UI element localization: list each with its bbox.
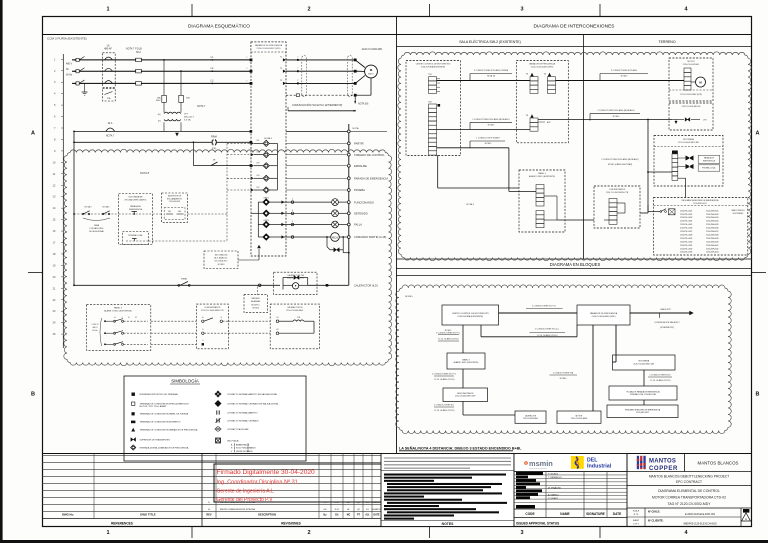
svg-text:60 Hz: 60 Hz <box>66 74 73 77</box>
VFD control terminals <box>250 130 253 133</box>
svg-text:DETENIDO: DETENIDO <box>354 212 368 216</box>
contacts BB BA <box>164 208 185 220</box>
svg-text:2120-PSL-0031: 2120-PSL-0031 <box>680 245 692 247</box>
svg-text:(X): (X) <box>158 121 161 123</box>
legend box SIMBOLOGIA <box>124 376 306 461</box>
svg-text:NOTA 3: NOTA 3 <box>218 263 225 266</box>
svg-text:2120-PSL-0032: 2120-PSL-0032 <box>680 248 692 250</box>
svg-text:NOTA 4: NOTA 4 <box>264 137 272 140</box>
wire vfd-motor <box>592 325 594 411</box>
box calefactor JYA <box>274 272 317 294</box>
svg-text:2120-PSL-0024: 2120-PSL-0024 <box>680 221 692 223</box>
aux contact box JYA <box>103 88 116 101</box>
svg-text:JYA: JYA <box>107 97 111 100</box>
wire no usados to VFD <box>238 259 259 261</box>
svg-text:RESUMEN SENSORES DE EMERGENCIA: RESUMEN SENSORES DE EMERGENCIA <box>682 199 720 202</box>
PT transformer JPT <box>163 102 165 112</box>
panel3 wires <box>509 190 536 192</box>
bloques inner line <box>397 275 752 277</box>
svg-text:NOTA 5: NOTA 5 <box>621 75 628 78</box>
approvals redactions <box>516 472 543 475</box>
svg-text:TAG N° 2120-CV-0002-MDY: TAG N° 2120-CV-0002-MDY <box>668 502 712 506</box>
shield wire dashed <box>286 94 355 96</box>
divider motor box <box>669 89 713 91</box>
block BOTONERA CAMPO <box>609 386 677 400</box>
box VFD interconexion <box>516 61 568 143</box>
svg-text:DESCONECTADOR: DESCONECTADOR <box>457 392 474 395</box>
junction dots on phases <box>163 59 165 61</box>
svg-text:42 A: 42 A <box>108 122 113 125</box>
VFD output wires to motor <box>286 59 355 61</box>
svg-text:3: 3 <box>520 530 523 536</box>
box asistente enclavamiento <box>162 193 188 222</box>
svg-text:3: 3 <box>292 221 293 223</box>
svg-text:2120-TLL-2002-MDN-CTB: 2120-TLL-2002-MDN-CTB <box>606 192 629 194</box>
svg-text:MANTOS BLANCOS: MANTOS BLANCOS <box>698 461 739 466</box>
sensor terminal <box>669 209 676 215</box>
svg-text:600V: 600V <box>156 100 161 102</box>
logos box <box>514 454 627 472</box>
svg-text:480 V: 480 V <box>66 63 73 66</box>
svg-text:2120-ESP-0021: 2120-ESP-0021 <box>636 412 649 414</box>
svg-text:2120-CV-0002-MDY-VDP: 2120-CV-0002-MDY-VDP <box>455 396 476 398</box>
svg-text:Gerente de Ingeniería A.L: Gerente de Ingeniería A.L <box>217 489 274 495</box>
svg-text:RIMA: RIMA <box>211 136 217 139</box>
svg-text:ID5: ID5 <box>257 187 260 189</box>
svg-text:FALLA: FALLA <box>354 223 362 227</box>
scan edge bottom <box>0 540 768 543</box>
svg-text:PULSADORES: PULSADORES <box>90 227 104 230</box>
svg-text:DIAGRAMA ESQUEMÁTICO: DIAGRAMA ESQUEMÁTICO <box>188 23 250 30</box>
svg-text:ALARM Y ENCL (EXISTENTE): ALARM Y ENCL (EXISTENTE) <box>454 361 479 364</box>
svg-text:P1: P1 <box>135 317 137 319</box>
motor M 460V <box>365 65 378 78</box>
svg-text:PANEL 3: PANEL 3 <box>114 307 123 310</box>
svg-text:TABLERO DE CONTROL: TABLERO DE CONTROL <box>354 153 385 157</box>
svg-text:MOTOR: MOTOR <box>576 415 583 417</box>
svg-text:Industrial: Industrial <box>587 464 612 470</box>
svg-text:PULSADOR PARADA DE EMERGENCIA: PULSADOR PARADA DE EMERGENCIA <box>626 390 660 393</box>
svg-text:ENTRADA DIGITAL A VARIADOR DE: ENTRADA DIGITAL A VARIADOR DE FRECUENCIA <box>140 446 189 449</box>
wire ccm to vfd power <box>437 80 531 82</box>
DO left bus <box>257 202 259 237</box>
svg-text:(H): (H) <box>158 114 161 116</box>
svg-text:2120-ZSH-0039: 2120-ZSH-0039 <box>706 238 718 240</box>
svg-text:2120-ZSH-0043: 2120-ZSH-0043 <box>706 252 718 254</box>
svg-text:2 CONDUCTORES NºL (2+): 2 CONDUCTORES NºL (2+) <box>535 328 559 331</box>
svg-text:CONCENTRADOR: CONCENTRADOR <box>609 188 626 191</box>
box PANEL 3 alarm <box>87 305 151 351</box>
comando partir row <box>284 236 331 238</box>
svg-text:MCA PLC: MCA PLC <box>252 303 261 306</box>
margin row tick left <box>28 272 42 274</box>
svg-text:PARTIR: PARTIR <box>354 142 364 146</box>
svg-text:ASISTENTE DE: ASISTENTE DE <box>168 195 182 198</box>
svg-text:CONTACTO NORMAL ABIERTO: CONTACTO NORMAL ABIERTO <box>227 411 258 414</box>
svg-text:NOTA 5/6: NOTA 5/6 <box>358 103 369 106</box>
svg-text:ISSUED APPROVAL STATUS: ISSUED APPROVAL STATUS <box>516 521 559 525</box>
svg-text:2 CONDUCTORES NºL P#L: 2 CONDUCTORES NºL P#L <box>432 373 456 376</box>
svg-text:2120-ZSH-0040: 2120-ZSH-0040 <box>706 241 718 243</box>
box junction JB <box>270 304 319 349</box>
wire to pulsador <box>648 171 672 173</box>
wire vfd to motor power <box>556 80 685 82</box>
concentrador row2 <box>151 332 197 334</box>
svg-text:2120-CV-0002-MDV (VFD): 2120-CV-0002-MDV (VFD) <box>592 316 616 318</box>
VFD strip s1 <box>530 73 533 76</box>
svg-text:REFERENCES: REFERENCES <box>111 522 133 526</box>
header band line <box>43 34 752 36</box>
svg-text:CALEFACTOR: CALEFACTOR <box>525 414 537 417</box>
svg-text:BORNERA DISPOSITIVO DE TERMINA: BORNERA DISPOSITIVO DE TERMINAL <box>140 393 179 396</box>
left reference table <box>42 454 202 456</box>
wire vfd-botonera <box>615 325 617 362</box>
pulsador strip <box>672 151 678 154</box>
svg-text:msmin: msmin <box>529 459 553 468</box>
svg-text:NOTA 5 (CABLE MULTIPAR): NOTA 5 (CABLE MULTIPAR) <box>608 163 633 166</box>
margin ticks top <box>191 4 193 17</box>
box concentrador interconexion <box>594 186 640 228</box>
svg-text:CCM-3 FURIA (EXISTENTE): CCM-3 FURIA (EXISTENTE) <box>457 315 483 318</box>
svg-text:2 CONDUCTORES Nº16 AWG (BLINDA: 2 CONDUCTORES Nº16 AWG (BLINDADO) <box>601 158 639 161</box>
svg-text:H1: H1 <box>276 317 278 319</box>
svg-text:2120-CV-0002-M01: 2120-CV-0002-M01 <box>362 48 384 51</box>
dashed wires to DI <box>188 213 227 215</box>
svg-text:RIMA: RIMA <box>94 224 100 227</box>
svg-text:2120-ZSH-0033: 2120-ZSH-0033 <box>706 217 718 219</box>
revision table <box>202 454 381 456</box>
svg-text:480-120 V: 480-120 V <box>184 117 195 119</box>
svg-text:2: 2 <box>307 530 310 536</box>
svg-text:CABLE ETP: CABLE ETP <box>660 308 672 311</box>
svg-text:NOTA 5: NOTA 5 <box>445 329 452 332</box>
svg-text:CODE: CODE <box>525 512 534 516</box>
svg-text:2120-PSL-0030: 2120-PSL-0030 <box>680 241 692 243</box>
svg-text:2 CONDUCTORES Nº16 AWG (BLINDA: 2 CONDUCTORES Nº16 AWG (BLINDADO) <box>597 109 635 112</box>
PT drop wires <box>163 60 165 95</box>
svg-text:2 CONDUCTORES VTA: 2 CONDUCTORES VTA <box>553 372 574 375</box>
svg-text:BOTONERA MB: BOTONERA MB <box>129 196 144 199</box>
svg-text:2120-PSL-0023: 2120-PSL-0023 <box>680 217 692 219</box>
block DESCONECTADOR <box>443 388 488 402</box>
svg-text:NOTA 4: NOTA 4 <box>466 203 474 206</box>
svg-text:1: 1 <box>106 530 109 536</box>
wire botonera-campo <box>643 370 645 386</box>
svg-text:DIAGRAMA EN BLOQUES: DIAGRAMA EN BLOQUES <box>550 262 601 267</box>
pushbutton chain <box>74 213 119 215</box>
left control rail <box>73 131 75 285</box>
svg-text:1 OF 1: 1 OF 1 <box>633 524 639 526</box>
svg-text:2120-CV-0002-M01: 2120-CV-0002-M01 <box>683 64 700 66</box>
svg-text:2120-ZSH-0037: 2120-ZSH-0037 <box>706 231 718 233</box>
svg-text:CH.: CH. <box>335 515 339 517</box>
svg-text:N.T.S: N.T.S <box>634 514 639 516</box>
svg-text:480 V: 480 V <box>93 327 99 329</box>
svg-text:VICT MCA PLC: VICT MCA PLC <box>214 260 228 263</box>
breaker 42A hump <box>106 128 115 131</box>
box NO USADOS A <box>204 251 238 269</box>
svg-text:2: 2 <box>307 7 310 13</box>
box NO USADOS B <box>244 295 268 313</box>
svg-text:1 X 16. 16 AWG (XX KV): 1 X 16. 16 AWG (XX KV) <box>537 334 558 337</box>
svg-text:50 A: 50 A <box>136 51 141 54</box>
svg-text:A: A <box>745 517 747 521</box>
svg-text:2120-PSL-0026: 2120-PSL-0026 <box>680 228 692 230</box>
svg-text:2120-CV-0002-MDV (VFD): 2120-CV-0002-MDV (VFD) <box>531 66 554 68</box>
svg-text:BOTONERA: BOTONERA <box>638 360 649 363</box>
svg-text:PANEL 3: PANEL 3 <box>462 358 469 361</box>
svg-text:REVISIONES: REVISIONES <box>281 522 301 526</box>
svg-text:WBDP05-2120-ELE-DCH-0002: WBDP05-2120-ELE-DCH-0002 <box>683 522 717 525</box>
svg-text:P. GILING: P. GILING <box>548 474 558 476</box>
svg-text:2120-HS-0021: 2120-HS-0021 <box>169 201 181 203</box>
svg-text:ALG. ANALOG.: ALG. ANALOG. <box>214 257 228 260</box>
svg-text:ALARMAS: ALARMAS <box>251 300 261 303</box>
wire ccm3-panel3 <box>462 325 464 353</box>
svg-text:NOTA 5: NOTA 5 <box>485 142 492 145</box>
svg-text:PRUEBA: PRUEBA <box>354 188 365 192</box>
approvals table <box>514 471 627 473</box>
svg-text:3: 3 <box>292 210 293 212</box>
svg-text:NOTA 2: NOTA 2 <box>85 206 93 209</box>
svg-text:NOTES: NOTES <box>442 522 454 526</box>
wire motorbox junctionbox <box>648 119 672 121</box>
wire ccm to vfd control <box>437 128 531 130</box>
block BOTONERA <box>613 355 676 370</box>
svg-text:2120-CV-0002-MHV: 2120-CV-0002-MHV <box>286 310 304 312</box>
box sensores list <box>654 198 748 256</box>
svg-text:H2: H2 <box>276 329 278 331</box>
svg-text:NOTA 7: NOTA 7 <box>126 48 135 51</box>
transformer secondary drop <box>163 122 165 131</box>
svg-text:JR: JR <box>213 160 216 162</box>
pulsador pushbutton 2 <box>678 166 686 168</box>
VFD strip s3 <box>530 114 533 117</box>
capacitor RIMA <box>212 139 214 145</box>
svg-text:NOTA: NOTA <box>353 127 359 130</box>
svg-text:1 X 16. 16 AWG (XX KV): 1 X 16. 16 AWG (XX KV) <box>438 338 459 341</box>
svg-text:DESCRIPTION: DESCRIPTION <box>258 513 276 517</box>
svg-text:CONTACTO NORMAL CERRADO EN SAL: CONTACTO NORMAL CERRADO EN SALIDA DIGITA… <box>227 402 279 405</box>
block VFD <box>577 305 630 325</box>
sensor contact <box>660 211 662 213</box>
svg-text:ID3: ID3 <box>257 163 260 165</box>
svg-text:2120-ZSH-0032: 2120-ZSH-0032 <box>706 214 718 216</box>
svg-text:CCM #3: CCM #3 <box>92 324 99 326</box>
heater control line <box>74 284 280 286</box>
svg-text:CALEFACTOR (ILD): CALEFACTOR (ILD) <box>354 283 378 287</box>
box junction terreno <box>669 103 713 130</box>
svg-text:LED PLACA:: LED PLACA: <box>227 439 239 442</box>
box CCM-3 interconexion <box>406 61 461 156</box>
svg-text:TERMINAL DE CONEXIÓN EN VARIAD: TERMINAL DE CONEXIÓN EN VARIADOR DE FREC… <box>140 428 198 431</box>
svg-text:ROJO FUNCIONANDO: ROJO FUNCIONANDO <box>236 447 256 450</box>
svg-text:2120-PSL-0028: 2120-PSL-0028 <box>680 234 692 236</box>
svg-text:NOTA 6: NOTA 6 <box>560 377 567 380</box>
svg-text:CONTACTO AUXILIAR: CONTACTO AUXILIAR <box>227 428 249 431</box>
wire panel3 to concentrador <box>557 219 594 221</box>
svg-text:EMERGENCIA: EMERGENCIA <box>703 160 716 163</box>
concentrador strip <box>609 199 617 225</box>
svg-text:A. KARNO: A. KARNO <box>548 493 559 496</box>
svg-text:A: A <box>756 131 760 137</box>
svg-text:TERRENO: TERRENO <box>658 40 675 44</box>
svg-text:30/ABR/20: 30/ABR/20 <box>372 508 381 511</box>
svg-text:SALA ELÉCTRICA SW-2 (EXISTENTE: SALA ELÉCTRICA SW-2 (EXISTENTE) <box>459 39 521 44</box>
NO switch line <box>193 165 251 167</box>
svg-text:Gerente del Proyecto P.V: Gerente del Proyecto P.V <box>217 497 274 503</box>
panel3 strip b <box>536 211 544 228</box>
terreno divider <box>583 35 585 259</box>
motor strip terreno <box>684 68 691 90</box>
svg-text:MOTOR CORREA TRANSPORTADORA CT: MOTOR CORREA TRANSPORTADORA CTD-02 <box>652 496 726 500</box>
svg-text:REV: REV <box>206 513 212 517</box>
VFD strip s2 <box>548 73 551 76</box>
svg-text:DIAGRAMA DE INTERCONEXIONES: DIAGRAMA DE INTERCONEXIONES <box>533 24 614 30</box>
PT fuse A <box>162 95 167 102</box>
dashed from prueba <box>149 240 228 242</box>
svg-text:DWG No.: DWG No. <box>62 513 74 517</box>
svg-text:2120-ZSH-0036: 2120-ZSH-0036 <box>706 228 718 230</box>
wire vfd to junction <box>538 119 648 121</box>
svg-text:2 CONDUCTORES NºL P#1: 2 CONDUCTORES NºL P#1 <box>532 305 556 308</box>
wire concentrador up <box>640 212 648 214</box>
svg-text:2120-ZSH-0038: 2120-ZSH-0038 <box>706 234 718 236</box>
svg-text:1 X 16. 16 AWG (XX KV): 1 X 16. 16 AWG (XX KV) <box>434 378 455 381</box>
junction components <box>672 119 684 121</box>
svg-text:NAME: NAME <box>560 512 569 516</box>
notes dense text <box>384 474 506 476</box>
motor circle terreno <box>696 77 706 87</box>
rev triangle <box>742 513 751 521</box>
sub band line right <box>397 46 752 48</box>
svg-text:2120-PSL-0033: 2120-PSL-0033 <box>680 252 692 254</box>
svg-text:A: A <box>31 131 35 137</box>
branch down to NO switch <box>193 141 195 143</box>
notes top paragraph <box>384 457 511 459</box>
svg-text:DEL: DEL <box>587 458 598 464</box>
svg-text:3.0 VA: 3.0 VA <box>184 119 191 122</box>
svg-text:PARADA DE: PARADA DE <box>704 157 715 160</box>
svg-text:3: 3 <box>520 7 523 13</box>
blocks cloud <box>396 285 732 434</box>
JB heater coil <box>276 320 279 323</box>
svg-text:M. PINACHO: M. PINACHO <box>548 486 561 489</box>
svg-text:ID1: ID1 <box>257 140 260 142</box>
svg-text:2120-CV-0002-MDY-JB5: 2120-CV-0002-MDY-JB5 <box>633 364 654 366</box>
svg-text:ALARM Y ENCL (EXISTENTE): ALARM Y ENCL (EXISTENTE) <box>104 310 132 313</box>
svg-text:2 CONDUCTORES NºL P#L: 2 CONDUCTORES NºL P#L <box>436 332 460 335</box>
pushbutton parada <box>119 213 162 215</box>
mantos copper logo box <box>684 454 686 472</box>
svg-text:PRUEBA LOCAL 2120-MDY-JB5: PRUEBA LOCAL 2120-MDY-JB5 <box>630 393 656 396</box>
svg-text:B: B <box>756 392 760 398</box>
block PANEL3 <box>447 353 485 369</box>
svg-text:NOTA 1: NOTA 1 <box>103 206 111 209</box>
panel3 strip a <box>536 185 544 207</box>
brace pulsadores seguridad <box>83 218 110 221</box>
box PANEL3 interconexion <box>519 170 565 232</box>
motor feed diagonals <box>355 60 365 68</box>
svg-text:COMUNICACIÓN HACIA PLC (ETHERN: COMUNICACIÓN HACIA PLC (ETHERNET/IP) <box>292 104 342 107</box>
svg-text:CENTRO CONTROL DE MOTORES Nº3: CENTRO CONTROL DE MOTORES Nº3 <box>452 312 489 315</box>
logo DEL industrial yellow <box>571 456 584 469</box>
svg-text:(ETHERNET/IP): (ETHERNET/IP) <box>660 327 674 329</box>
svg-text:PARADA DE EMERGENCIA: PARADA DE EMERGENCIA <box>354 177 388 181</box>
panel divider <box>396 17 398 454</box>
svg-text:CONTACTO NORMAL CERRADO: CONTACTO NORMAL CERRADO <box>227 419 259 422</box>
svg-text:460 V: 460 V <box>368 74 374 76</box>
svg-text:MULTIPARES: MULTIPARES <box>733 212 744 215</box>
scan edge left <box>0 0 3 543</box>
ethernet arrow <box>288 110 356 112</box>
svg-text:NOTA 5: NOTA 5 <box>613 115 620 118</box>
cable loop right <box>348 56 353 97</box>
wire down to panel3 <box>508 148 510 192</box>
svg-text:ID4: ID4 <box>257 175 260 177</box>
svg-text:E-0020-2120-ELE-DCH-002: E-0020-2120-ELE-DCH-002 <box>685 513 716 516</box>
wire L3 <box>72 82 251 84</box>
box BOTONERA field <box>119 194 153 245</box>
svg-text:60 Hz: 60 Hz <box>93 330 98 332</box>
svg-text:COPPER: COPPER <box>649 466 678 472</box>
svg-text:NOTA 1A: NOTA 1A <box>487 75 496 78</box>
mantos logo icon <box>637 456 639 469</box>
svg-text:EMITIDO PARA REVISIÓN INTERNA: EMITIDO PARA REVISIÓN INTERNA <box>220 508 255 511</box>
number rows <box>627 516 741 518</box>
svg-text:PRUEBA LOCAL: PRUEBA LOCAL <box>128 234 142 237</box>
wire L2 <box>72 70 251 72</box>
wire box B up <box>256 287 258 295</box>
concentrador switch row1 <box>151 320 197 322</box>
svg-text:2120-CV-0002-MHV (HTR): 2120-CV-0002-MHV (HTR) <box>680 94 702 96</box>
svg-text:MC: MC <box>347 515 351 517</box>
svg-text:P. SWART: P. SWART <box>548 497 559 500</box>
svg-text:AJL: AJL <box>365 514 370 517</box>
control line 2 <box>74 141 251 143</box>
svg-text:JPT: JPT <box>184 114 189 116</box>
wire ccm lower <box>437 147 509 149</box>
svg-text:2120-ZSH-0031: 2120-ZSH-0031 <box>706 210 718 212</box>
margin ticks bottom <box>191 527 193 539</box>
VFD input terminals <box>250 59 253 62</box>
svg-text:CENTRO CONTROL DE MOTORES Nº3: CENTRO CONTROL DE MOTORES Nº3 <box>416 63 451 66</box>
svg-text:TB1: TB1 <box>428 74 431 76</box>
svg-text:PARADA DE: PARADA DE <box>130 205 141 208</box>
svg-text:2120-TLL-2002-MDN-CTB: 2120-TLL-2002-MDN-CTB <box>201 310 224 312</box>
box PRUEBA LOCAL <box>123 232 149 245</box>
signature stamp box <box>214 464 394 502</box>
svg-text:VARIADOR DE FRECUENCIA: VARIADOR DE FRECUENCIA <box>255 44 283 47</box>
svg-text:COMANDO PARTIR (A 48): COMANDO PARTIR (A 48) <box>354 235 386 239</box>
svg-text:(PULSADORES CAMPO): (PULSADORES CAMPO) <box>125 199 147 202</box>
seal-in circuit <box>326 237 328 247</box>
upper right row labels <box>286 142 347 144</box>
wire desconectador-calefactor <box>462 402 464 416</box>
motor ground drop <box>370 78 372 95</box>
svg-text:DATE: DATE <box>613 512 621 516</box>
block CALEFACTOR <box>515 411 546 423</box>
svg-text:1 CONDUCTOR Nº16 AWG: 1 CONDUCTOR Nº16 AWG <box>476 137 500 140</box>
wire ccm3-vfd upper <box>499 312 578 314</box>
block RESUMEN SENSORES <box>607 405 678 418</box>
rev cell <box>740 508 742 527</box>
output rows to lamps <box>284 201 332 203</box>
svg-text:2120-PSL-0025: 2120-PSL-0025 <box>680 224 692 226</box>
revision cloud left panel <box>64 149 392 365</box>
svg-text:COMUNICACIÓN HACIA PLC: COMUNICACIÓN HACIA PLC <box>654 321 680 324</box>
block MOTOR <box>557 411 601 423</box>
